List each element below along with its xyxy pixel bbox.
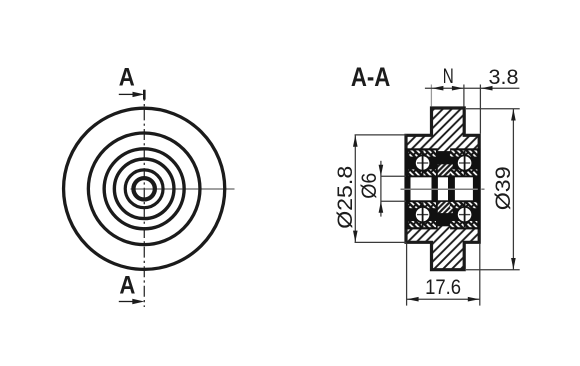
spacer hatch block upper [438, 164, 453, 175]
arrow O39 bottom [511, 258, 516, 270]
seal band left-top upper [408, 150, 436, 156]
seal band right-bottom lower [450, 221, 478, 227]
dimension line O6 [380, 161, 382, 217]
svg-text:Ø25.8: Ø25.8 [334, 166, 357, 229]
cutting plane thick end top [143, 90, 146, 100]
seal band right-bottom upper [450, 202, 478, 208]
dimension 17.6: extension right [479, 244, 481, 306]
arrow 17.6 left [407, 297, 419, 302]
seal band left-bottom upper [408, 202, 436, 208]
body web stem continuation bottom [438, 226, 450, 229]
circle bore O6 [133, 178, 154, 199]
arrow O25.8 bottom [353, 231, 358, 243]
seal band right-top upper [450, 150, 478, 156]
dimension O39: extension bottom [466, 269, 520, 271]
seal band left-top lower [408, 169, 436, 175]
outer circle (O39 rim) [64, 108, 225, 269]
arrow O25.8 top [353, 135, 358, 147]
svg-text:A-A: A-A [351, 62, 391, 92]
arrow 3.8 [481, 86, 493, 91]
ball right-bottom [457, 207, 472, 222]
ball right-top [457, 155, 472, 170]
dimension N: extension line left (rim left face) [430, 85, 432, 107]
axis centerline of section [401, 188, 478, 190]
ball left-bottom [415, 207, 430, 222]
seal band right-top lower [450, 169, 478, 175]
dimension line O25.8 [354, 135, 356, 243]
seal band left-bottom lower [408, 221, 436, 227]
circle ball race outer [114, 159, 174, 219]
svg-text:Ø39: Ø39 [492, 166, 515, 210]
bearing cartridge zone (solid black) [405, 148, 480, 229]
circle inner ring [125, 170, 163, 208]
horizontal centerline [131, 188, 235, 190]
body web stem continuation top [438, 148, 450, 152]
dimension 17.6: extension left [406, 244, 408, 306]
dimension N: extension line right (rim right face) [463, 85, 465, 107]
svg-text:A: A [119, 271, 135, 299]
arrow O6 bottom (outside, pointing up) [379, 201, 384, 213]
section arrow bottom [119, 301, 134, 303]
arrow 17.6 right [468, 297, 480, 302]
dimension O6: extension top [381, 175, 406, 177]
arrow O39 top [511, 109, 516, 121]
ball left-top [415, 155, 430, 170]
bore window center [438, 177, 448, 200]
dimension line O39 [512, 109, 514, 270]
dimension 3.8: extension line (body right face) [479, 85, 481, 134]
arrow N left [432, 86, 444, 91]
dimension O39: extension top [466, 108, 520, 110]
bore window left [411, 177, 432, 200]
roller body silhouette with hatching [406, 108, 479, 270]
arrow N right [452, 86, 464, 91]
dimension line 17.6 [407, 298, 480, 300]
section arrow top [119, 93, 134, 95]
vertical centerline (cutting plane A-A) [143, 90, 145, 307]
svg-text:Ø6: Ø6 [358, 173, 381, 199]
arrow O6 top (outside, pointing down) [379, 165, 384, 177]
circle bearing outer ring [104, 149, 184, 229]
circle O25.8 body step [88, 133, 200, 245]
svg-text:17.6: 17.6 [425, 275, 461, 299]
svg-text:N: N [443, 65, 454, 88]
svg-text:3.8: 3.8 [489, 65, 519, 89]
dimension O25.8: extension top [355, 134, 407, 136]
dimension O25.8: extension bottom [355, 241, 407, 243]
spacer hatch block lower [438, 202, 453, 213]
dimension O6: extension bottom [381, 200, 406, 202]
dimension line N / 3.8 [425, 87, 520, 89]
bore window right [455, 177, 473, 200]
svg-text:A: A [119, 63, 135, 91]
